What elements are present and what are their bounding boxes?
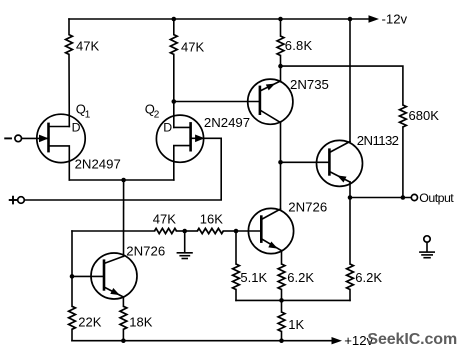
Q2 gate bar: [189, 123, 192, 150]
label 1K: [288, 317, 304, 332]
input terminal minus: [15, 135, 22, 142]
watermark SeekIC.com: [367, 331, 457, 348]
node junction top rail / 6.8K: [278, 17, 283, 22]
label 18K: [129, 314, 152, 329]
wire 6.2K middle bottom lead: [281, 290, 283, 301]
label plus sign: [10, 197, 17, 204]
svg-text:6.2K: 6.2K: [287, 270, 314, 285]
transistor 2N735 body: [248, 79, 293, 124]
transistor 2N726 middle body: [248, 208, 293, 253]
node 18K / bottom rail junction: [121, 338, 126, 343]
2N726 middle base wire: [236, 230, 261, 232]
svg-text:D: D: [163, 120, 172, 134]
ground right stem: [426, 242, 428, 251]
wire 2N735 emitter to node: [280, 66, 282, 81]
transistor 2N726 left body: [91, 253, 137, 299]
resistor 6.8K: [277, 36, 284, 56]
resistor R1 47K: [66, 35, 73, 55]
wire output node to 6.2K: [349, 198, 351, 265]
label 5.1K: [240, 270, 267, 285]
label 680K: [409, 108, 440, 123]
wire 6.2K right bottom lead: [349, 290, 351, 301]
output terminal: [411, 194, 417, 200]
label Q1 2N2497: [75, 157, 121, 172]
label R1 47K: [76, 39, 99, 54]
2N726 left base bar: [103, 261, 106, 290]
svg-text:2N2497: 2N2497: [75, 157, 121, 172]
wire 18K bottom lead: [122, 329, 124, 340]
Q1 source lead: [49, 146, 70, 180]
2N726 middle emitter arrow: [268, 242, 278, 249]
resistor 6.2K right: [347, 264, 354, 290]
svg-text:2N726: 2N726: [126, 244, 165, 259]
wire 47K R2 top lead: [173, 19, 175, 35]
wire 6.8K to emitter node: [280, 56, 282, 67]
svg-text:47K: 47K: [76, 39, 99, 54]
svg-text:1K: 1K: [288, 317, 304, 332]
svg-text:16K: 16K: [200, 211, 223, 226]
node Q2 drain / 2N735 base junction: [172, 99, 177, 104]
ground symbol stem: [184, 231, 186, 252]
resistor 47K horizontal: [155, 228, 177, 233]
resistor 16K horizontal: [197, 228, 223, 233]
wire 2N735 collector to 2N726 collector: [280, 123, 282, 210]
wire bottom +12 rail: [72, 340, 332, 342]
resistor 18K: [120, 306, 127, 329]
resistor 6.2K middle: [278, 264, 285, 290]
node 2N1132 base junction: [278, 160, 283, 165]
wire -12v rail to 2N1132 collector: [349, 19, 351, 142]
wire 1K bottom lead: [281, 332, 283, 341]
2N726 left base wire: [72, 275, 104, 277]
label minus sign: [5, 137, 11, 139]
wire base node to 5.1K: [235, 231, 237, 264]
label 2N726 middle: [288, 200, 327, 215]
label Q1: [76, 101, 91, 120]
wire left branch vertical: [71, 231, 73, 306]
2N1132 base bar: [328, 150, 331, 175]
node ground junction: [182, 229, 187, 234]
transistor 2N1132 body: [317, 140, 363, 186]
svg-text:2N1132: 2N1132: [357, 133, 399, 148]
node junction top rail / 47K R2: [172, 17, 177, 22]
svg-text:2N735: 2N735: [290, 77, 329, 92]
Q2 gate arrow: [195, 135, 205, 143]
svg-text:18K: 18K: [129, 314, 152, 329]
wire 2N1132 emitter to output node: [349, 182, 351, 198]
Q1 gate arrow: [39, 135, 49, 143]
power arrow -12v: [369, 15, 380, 22]
resistor 22K: [69, 306, 76, 329]
resistor 680K: [400, 105, 407, 127]
ground right bars: [420, 252, 434, 258]
power arrow +12: [332, 337, 343, 344]
2N1132 collector lead: [329, 142, 350, 153]
net label -12v: [382, 11, 408, 26]
wire Q1-Q2 source rail: [69, 179, 174, 181]
2N726 left emitter arrow: [110, 288, 120, 295]
wire base line left segment: [72, 230, 155, 232]
svg-text:680K: 680K: [409, 108, 440, 123]
label 47K horizontal: [153, 212, 176, 227]
2N726 middle emitter lead: [261, 239, 281, 251]
ground symbol bars: [177, 253, 192, 259]
Q1 pin label D: [72, 120, 81, 134]
label Output: [419, 191, 454, 205]
svg-text:-12v: -12v: [382, 11, 408, 26]
node source rail junction: [121, 178, 126, 183]
wire 47K R1 top lead: [68, 19, 70, 35]
svg-text:6.8K: 6.8K: [285, 38, 313, 53]
node 1K / bottom rail junction: [279, 338, 284, 343]
label 16K: [200, 211, 223, 226]
2N735 collector lead: [260, 110, 281, 123]
wire ground node to 16K: [185, 230, 198, 232]
svg-text:47K: 47K: [153, 212, 176, 227]
wire 47K to ground node: [177, 230, 185, 232]
wire 1K top lead: [281, 300, 283, 312]
resistor 1K: [278, 312, 285, 332]
label 22K: [78, 314, 101, 329]
svg-text:2N726: 2N726: [288, 200, 327, 215]
label R2 47K: [181, 39, 204, 54]
svg-text:1: 1: [85, 110, 91, 121]
node 680K / output junction: [401, 195, 406, 200]
2N726 left collector lead: [104, 256, 124, 263]
resistor 5.1K: [233, 264, 240, 290]
label 2N735: [290, 77, 329, 92]
label 2N726 left: [126, 244, 165, 259]
node tie line / 1K junction: [279, 298, 284, 303]
wire 2N726 emitter to 6.2K: [281, 251, 283, 264]
wire 2N726 left emitter to 18K: [122, 297, 124, 306]
Q2 drain lead: [174, 126, 191, 128]
wire resistor tie line: [236, 299, 350, 301]
wire R2 to Q2 drain node: [173, 54, 175, 101]
svg-text:22K: 22K: [78, 314, 101, 329]
label 2N1132: [357, 133, 399, 148]
wire emitter node to 680K: [281, 66, 403, 105]
2N735 base bar: [259, 87, 262, 114]
node junction top rail / 2N1132 collector: [348, 17, 353, 22]
input terminal plus: [18, 197, 25, 204]
svg-text:Output: Output: [419, 191, 454, 205]
transistor Q1 2N2497 body: [37, 114, 85, 162]
Q2 pin label D: [163, 120, 172, 134]
Q1 gate wire from - input: [22, 137, 49, 139]
wire source rail to 2N726 collector: [123, 180, 125, 256]
net label +12v: [344, 333, 373, 348]
svg-text:2: 2: [154, 110, 160, 121]
node emitter/output junction: [348, 195, 353, 200]
wire 6.8K top lead: [280, 19, 282, 36]
wire top -12v rail: [69, 18, 369, 20]
2N1132 emitter lead: [329, 172, 350, 183]
2N726 middle base bar: [260, 217, 263, 242]
wire junction to Q2 drain: [173, 102, 175, 128]
2N726 middle collector lead: [261, 209, 280, 220]
label 6.8K: [285, 38, 313, 53]
label 6.2K middle: [287, 270, 314, 285]
node 22K / base junction: [70, 274, 75, 279]
wire 22K bottom lead: [71, 329, 73, 340]
node 16K / 5.1K / base junction: [234, 229, 239, 234]
svg-text:D: D: [72, 120, 81, 134]
2N726 left emitter lead: [104, 287, 123, 297]
svg-text:47K: 47K: [181, 39, 204, 54]
2N735 emitter arrow: [266, 84, 276, 91]
svg-text:2N2497: 2N2497: [204, 115, 250, 130]
node 6.8K / 2N735 emitter / 680K junction: [278, 64, 283, 69]
svg-text:6.2K: 6.2K: [355, 270, 382, 285]
wire 5.1K bottom lead: [235, 290, 237, 301]
svg-text:SeekIC.com: SeekIC.com: [367, 331, 457, 348]
transistor Q2 2N2497 body: [156, 115, 203, 162]
Q2 gate wire to + input line: [24, 138, 221, 200]
label 6.2K right: [355, 270, 382, 285]
wire 680K to output node: [402, 127, 404, 198]
label Q2 2N2497: [204, 115, 250, 130]
Q1 drain lead: [49, 126, 70, 128]
svg-text:5.1K: 5.1K: [240, 270, 267, 285]
label Q2: [145, 101, 160, 120]
wire R1 to Q1 drain: [68, 54, 70, 126]
wire output line: [350, 197, 411, 199]
2N735 base wire: [174, 101, 260, 103]
resistor R2 47K: [170, 35, 177, 55]
2N1132 base wire: [281, 161, 330, 163]
Q1 gate bar: [47, 124, 50, 151]
wire 16K to base node: [223, 230, 236, 232]
Q2 source lead: [174, 146, 191, 180]
ground terminal right: [424, 236, 430, 242]
2N735 emitter lead up: [260, 81, 281, 91]
2N1132 emitter arrow PNP: [337, 175, 347, 182]
